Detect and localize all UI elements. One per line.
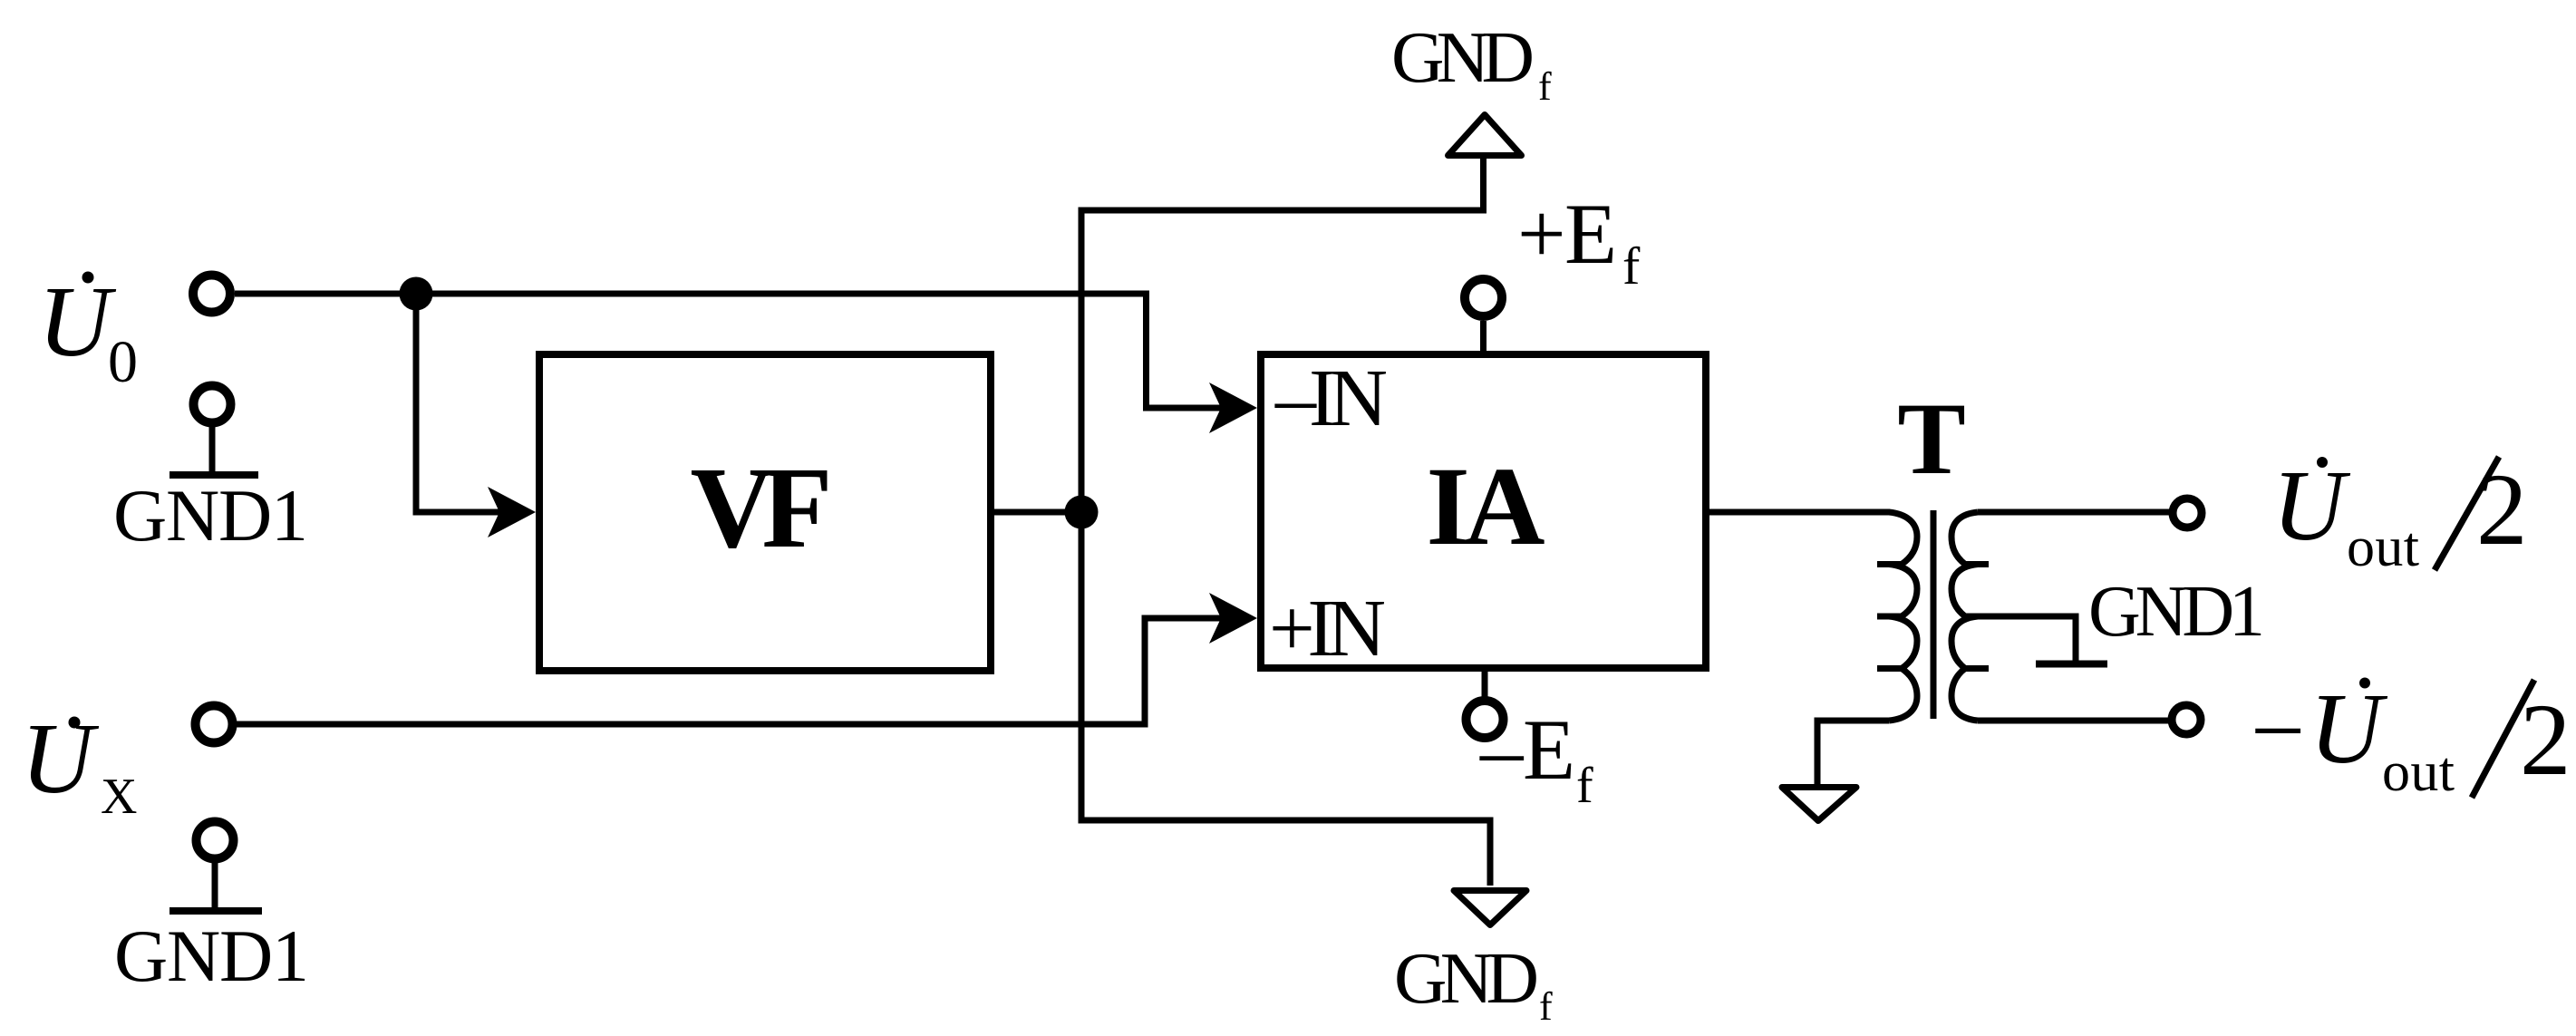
svg-text:f: f <box>1538 64 1552 109</box>
svg-text:GND: GND <box>1391 16 1535 98</box>
block VF <box>539 354 991 671</box>
arrow into VF <box>488 487 536 537</box>
junction VF output node <box>1065 496 1099 529</box>
svg-text:U: U <box>21 703 100 815</box>
node Ux input terminal <box>196 706 233 743</box>
label +Ef <box>1517 186 1641 295</box>
label GND_f bottom <box>1394 937 1553 1029</box>
node Uout/2 output terminal <box>2173 499 2202 528</box>
svg-text:f: f <box>1622 237 1641 295</box>
terminal -Ef <box>1467 672 1504 738</box>
wire IA output to transformer primary <box>1709 509 1890 516</box>
ground GND_f bottom triangle <box>1454 891 1526 925</box>
wire primary bottom to ground <box>1817 721 1889 785</box>
svg-text:GND1: GND1 <box>2088 572 2265 652</box>
wire U0 terminal to staircase into -IN <box>235 294 1225 408</box>
block IA <box>1261 354 1706 668</box>
arrow into IA +IN <box>1209 593 1257 644</box>
svg-text:out: out <box>2347 517 2419 578</box>
ground GND_f top triangle <box>1448 115 1522 156</box>
label Ux <box>21 703 137 825</box>
wire secondary bottom to output terminal <box>1978 718 2168 724</box>
svg-text:−: − <box>2251 678 2305 785</box>
label -Uout/2 <box>2251 673 2571 803</box>
svg-text:+IN: +IN <box>1269 584 1386 673</box>
junction on U0 wire <box>400 277 433 311</box>
wire secondary top to output terminal <box>1978 509 2169 516</box>
label Uout/2 <box>2272 450 2528 578</box>
svg-text:–E: –E <box>1479 702 1575 798</box>
wire Ux terminal to staircase into +IN <box>237 618 1225 724</box>
svg-text:GND1: GND1 <box>114 915 309 997</box>
wire center tap to GND1 <box>1965 616 2107 664</box>
transformer T primary winding <box>1877 512 1917 721</box>
svg-text:U: U <box>2272 450 2351 562</box>
svg-text:–IN: –IN <box>1274 353 1388 443</box>
svg-text:U: U <box>38 266 117 378</box>
label GND_f top <box>1391 16 1552 109</box>
ground GND1 upper terminal <box>169 386 258 476</box>
svg-text:U: U <box>2310 673 2388 785</box>
svg-text:out: out <box>2382 741 2455 803</box>
svg-text:f: f <box>1576 758 1593 814</box>
wire junction to VF input <box>416 294 500 512</box>
svg-text:f: f <box>1539 984 1553 1029</box>
transformer T secondary winding <box>1951 512 1989 721</box>
wire VF output <box>994 509 1081 516</box>
label -Ef <box>1479 702 1593 814</box>
ground GND_f triangle at transformer <box>1782 788 1856 821</box>
svg-text:VF: VF <box>691 443 833 572</box>
arrow into IA -IN <box>1209 382 1257 433</box>
svg-text:+E: +E <box>1517 186 1617 282</box>
svg-text:GND1: GND1 <box>113 474 308 557</box>
terminal +Ef <box>1465 279 1502 354</box>
node -Uout/2 output terminal <box>2172 705 2201 734</box>
svg-text:2: 2 <box>2476 453 2528 566</box>
ground GND1 lower terminal <box>169 822 262 912</box>
svg-text:0: 0 <box>108 329 138 395</box>
svg-text:X: X <box>101 769 137 825</box>
svg-text:GND: GND <box>1394 937 1539 1019</box>
transformer core <box>1931 510 1937 719</box>
label U0 <box>38 266 138 395</box>
svg-text:T: T <box>1897 382 1965 496</box>
wire GND_f bus from VF output <box>1081 158 1490 886</box>
svg-text:IA: IA <box>1427 444 1545 568</box>
svg-text:2: 2 <box>2520 683 2571 797</box>
node U0 input terminal <box>193 276 230 313</box>
